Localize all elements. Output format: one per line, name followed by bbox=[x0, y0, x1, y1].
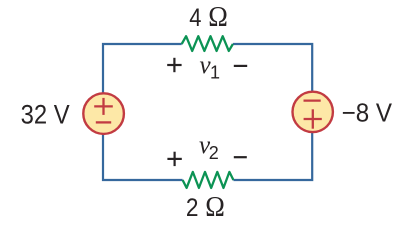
resistor R2 (2 ohm, bottom branch) bbox=[183, 172, 234, 188]
wire top-left loop: V1 + terminal to R1 left, left rail and bottom-left to R2 bbox=[103, 44, 183, 180]
value label 2 ohm for R2 bbox=[186, 192, 225, 223]
plus symbol inside V1 bbox=[94, 98, 113, 115]
resistor R1 (4 ohm, top branch) bbox=[182, 36, 233, 51]
svg-text:Ω: Ω bbox=[205, 192, 225, 221]
polarity minus for v2 bbox=[234, 156, 247, 158]
svg-text:−8 V: −8 V bbox=[342, 97, 393, 127]
svg-text:1: 1 bbox=[210, 63, 220, 83]
voltage source V2 -8 V (right, independent source circle) bbox=[293, 92, 333, 132]
plus symbol inside V2 bbox=[304, 109, 322, 128]
svg-text:4: 4 bbox=[189, 4, 201, 32]
voltage source V1 32 V (left, independent source circle) bbox=[83, 93, 124, 134]
minus symbol inside V1 bbox=[96, 121, 111, 123]
svg-text:32 V: 32 V bbox=[21, 100, 70, 130]
value label 4 ohm for R1 bbox=[189, 2, 228, 33]
minus symbol inside V2 bbox=[304, 99, 321, 101]
polarity plus for v1 bbox=[167, 58, 181, 72]
polarity minus for v1 bbox=[234, 65, 247, 67]
voltage label v2 bbox=[199, 132, 219, 163]
wire top-right loop: R1 right to V2, right rail and bottom-right from R2 bbox=[233, 44, 312, 180]
svg-text:2: 2 bbox=[209, 143, 219, 163]
polarity plus for v2 bbox=[167, 152, 181, 166]
voltage label v1 bbox=[200, 52, 221, 83]
svg-text:Ω: Ω bbox=[208, 2, 228, 33]
svg-text:2: 2 bbox=[186, 194, 199, 221]
